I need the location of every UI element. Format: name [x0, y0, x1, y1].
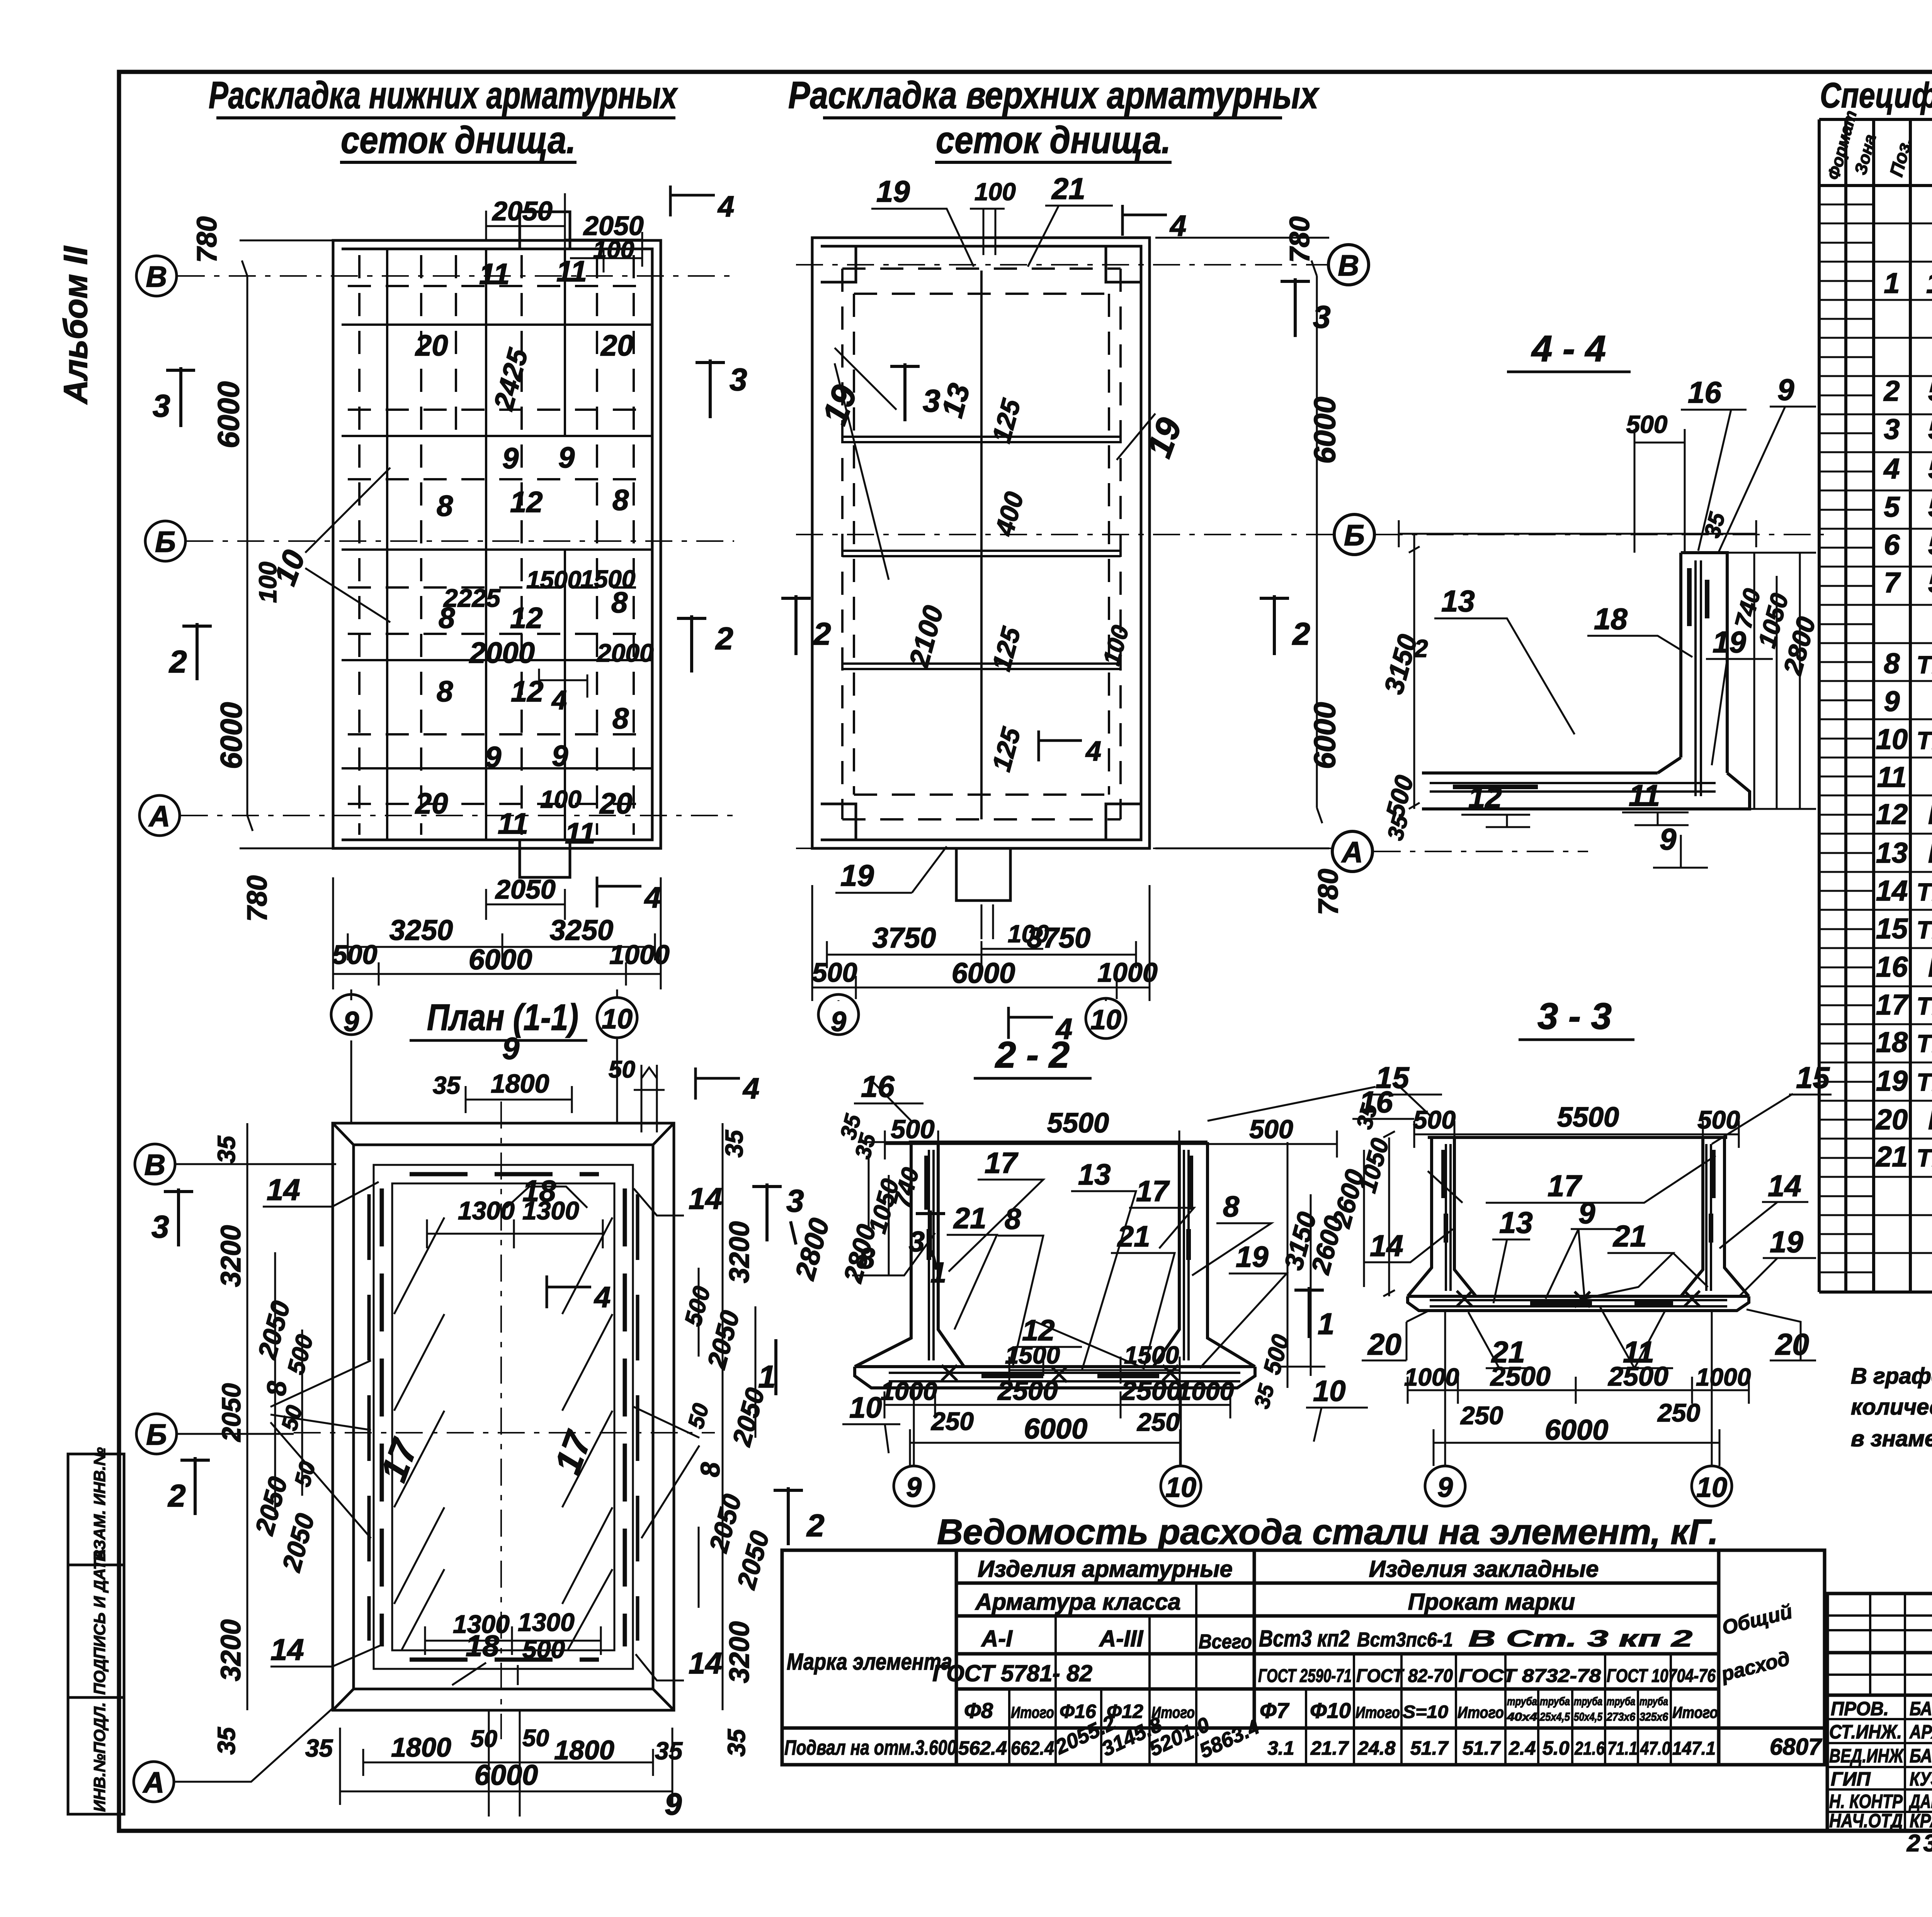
svg-text:780: 780 [192, 216, 223, 263]
svg-text:11: 11 [556, 255, 587, 288]
svg-text:4: 4 [742, 1072, 759, 1105]
svg-text:1: 1 [1318, 1307, 1334, 1341]
svg-text:19: 19 [876, 174, 910, 208]
svg-text:6: 6 [1884, 529, 1900, 561]
svg-text:250: 250 [1460, 1401, 1503, 1430]
svg-text:9: 9 [1660, 822, 1677, 856]
svg-text:КРАСАВИН: КРАСАВИН [1910, 1810, 1932, 1832]
svg-text:ГОСТ 5781- 82: ГОСТ 5781- 82 [932, 1660, 1092, 1686]
svg-text:1300: 1300 [453, 1610, 510, 1638]
svg-text:3: 3 [153, 388, 170, 424]
svg-text:3200: 3200 [724, 1621, 755, 1683]
svg-text:35: 35 [655, 1737, 683, 1765]
svg-text:3: 3 [730, 362, 747, 397]
svg-text:2500: 2500 [1121, 1376, 1182, 1406]
svg-text:1800: 1800 [491, 1069, 549, 1098]
svg-text:50: 50 [522, 1725, 549, 1752]
svg-text:9: 9 [558, 441, 575, 474]
svg-text:19: 19 [1770, 1225, 1803, 1259]
svg-text:9: 9 [344, 1006, 359, 1037]
svg-text:51.7: 51.7 [1463, 1737, 1501, 1759]
svg-text:3: 3 [1884, 413, 1900, 445]
svg-text:9: 9 [906, 1472, 922, 1503]
svg-text:2: 2 [168, 644, 187, 679]
svg-text:4 - 4: 4 - 4 [1531, 328, 1606, 369]
svg-text:15: 15 [1376, 1061, 1410, 1095]
svg-text:ТП902-1-134.88 КЖИ. 49.00: ТП902-1-134.88 КЖИ. 49.00 [1917, 1068, 1932, 1096]
svg-text:23142-01: 23142-01 [1906, 1830, 1932, 1857]
svg-text:ГОСТ 8732-78: ГОСТ 8732-78 [1459, 1666, 1601, 1686]
svg-text:20: 20 [415, 329, 448, 362]
svg-text:труба: труба [1540, 1695, 1570, 1708]
svg-text:ГИП: ГИП [1831, 1768, 1871, 1790]
svg-text:S=10: S=10 [1403, 1702, 1448, 1722]
svg-text:Вст3пс6-1: Вст3пс6-1 [1357, 1629, 1453, 1651]
svg-text:35: 35 [213, 1135, 240, 1163]
svg-text:Раскладка нижних арматурных: Раскладка нижних арматурных [209, 74, 678, 116]
svg-text:4: 4 [594, 1281, 611, 1314]
svg-text:8: 8 [612, 702, 629, 735]
svg-text:4: 4 [644, 881, 661, 914]
svg-text:500: 500 [812, 957, 857, 987]
svg-text:9: 9 [552, 740, 568, 773]
svg-text:13: 13 [1078, 1158, 1111, 1191]
svg-text:9: 9 [665, 1787, 682, 1821]
svg-text:3: 3 [909, 1226, 925, 1258]
svg-text:47.0: 47.0 [1640, 1738, 1670, 1759]
svg-text:20: 20 [415, 787, 448, 820]
svg-text:250: 250 [1657, 1398, 1700, 1427]
svg-text:5.900-2 ТМ91-07: 5.900-2 ТМ91-07 [1928, 491, 1932, 523]
svg-text:500: 500 [1626, 410, 1668, 438]
svg-text:АРХИПОВА: АРХИПОВА [1909, 1721, 1932, 1743]
svg-text:11: 11 [498, 807, 528, 840]
svg-text:147.1: 147.1 [1672, 1738, 1716, 1759]
svg-text:9: 9 [485, 741, 501, 774]
svg-text:780: 780 [1313, 869, 1344, 915]
svg-text:6000: 6000 [214, 702, 248, 769]
svg-text:8: 8 [262, 1381, 292, 1396]
svg-text:Н. КОНТР: Н. КОНТР [1829, 1791, 1903, 1812]
svg-text:562.4: 562.4 [958, 1737, 1007, 1759]
svg-text:273х6: 273х6 [1606, 1711, 1635, 1723]
svg-text:5.900-2 ТМ91-05: 5.900-2 ТМ91-05 [1928, 375, 1932, 407]
svg-text:13: 13 [1441, 584, 1475, 618]
svg-text:Итого: Итого [1355, 1703, 1400, 1721]
svg-text:100: 100 [540, 785, 582, 813]
svg-text:в знаменателе - для системы: в знаменателе - для системы И 4.1 . [1851, 1426, 1932, 1451]
svg-text:1000: 1000 [1404, 1363, 1459, 1391]
svg-text:А-III: А-III [1099, 1626, 1144, 1651]
svg-text:5.900-2 ТМ91-01: 5.900-2 ТМ91-01 [1928, 567, 1932, 599]
svg-text:2500: 2500 [1607, 1361, 1668, 1391]
svg-text:35: 35 [720, 1129, 748, 1158]
svg-text:10: 10 [1090, 1004, 1121, 1035]
svg-text:14: 14 [689, 1182, 722, 1216]
svg-text:21: 21 [1612, 1219, 1647, 1253]
svg-text:71.1: 71.1 [1607, 1738, 1638, 1759]
svg-text:3750: 3750 [872, 922, 936, 954]
svg-text:21: 21 [953, 1202, 986, 1235]
svg-text:780: 780 [242, 875, 273, 922]
svg-text:1: 1 [1884, 267, 1900, 299]
svg-text:250: 250 [1136, 1408, 1180, 1436]
svg-text:20: 20 [1367, 1327, 1401, 1361]
svg-text:10: 10 [1696, 1472, 1727, 1503]
svg-text:14: 14 [689, 1646, 722, 1680]
svg-text:А: А [148, 800, 170, 833]
svg-text:35: 35 [433, 1071, 461, 1099]
svg-text:Б: Б [155, 526, 176, 558]
svg-text:780: 780 [1284, 216, 1315, 263]
svg-text:6000: 6000 [952, 957, 1015, 989]
svg-text:20: 20 [1775, 1327, 1809, 1361]
svg-text:4: 4 [551, 685, 567, 715]
svg-text:9: 9 [502, 442, 519, 475]
svg-text:1800: 1800 [391, 1732, 451, 1762]
svg-text:1500: 1500 [580, 565, 635, 593]
svg-text:14: 14 [1876, 875, 1908, 907]
svg-text:13: 13 [1876, 837, 1908, 869]
svg-text:ИНВ.№ПОДЛ.: ИНВ.№ПОДЛ. [90, 1702, 109, 1812]
svg-text:6000: 6000 [469, 943, 532, 976]
svg-text:ГОСТ 23279 - 85: ГОСТ 23279 - 85 [1928, 798, 1932, 830]
svg-text:15: 15 [1876, 913, 1908, 945]
svg-text:24.8: 24.8 [1357, 1737, 1396, 1759]
svg-text:ГОСТ 23279-85: ГОСТ 23279-85 [1928, 837, 1932, 869]
svg-text:3200: 3200 [216, 1225, 247, 1287]
svg-text:1500: 1500 [526, 566, 581, 594]
svg-text:17: 17 [1548, 1169, 1582, 1203]
svg-text:ГОСТ 2590-71: ГОСТ 2590-71 [1258, 1666, 1352, 1686]
svg-text:БАБИКОВА: БАБИКОВА [1910, 1745, 1932, 1767]
svg-text:Всего: Всего [1199, 1631, 1252, 1653]
svg-text:ВЗАМ. ИНВ.№: ВЗАМ. ИНВ.№ [90, 1447, 109, 1561]
svg-text:35: 35 [305, 1734, 333, 1762]
svg-text:19: 19 [1236, 1241, 1269, 1273]
svg-text:ТП902-1-134.88 КЖИ. 50.00: ТП902-1-134.88 КЖИ. 50.00 [1917, 1144, 1932, 1172]
svg-text:1000: 1000 [881, 1377, 937, 1405]
svg-text:В: В [145, 1149, 166, 1182]
svg-text:А-I: А-I [981, 1626, 1013, 1651]
svg-text:11: 11 [1629, 778, 1660, 812]
svg-text:6000: 6000 [474, 1759, 538, 1791]
svg-text:10: 10 [849, 1391, 882, 1424]
svg-text:2225: 2225 [443, 584, 501, 612]
svg-text:17: 17 [1136, 1175, 1170, 1208]
svg-text:БАБИКОВА: БАБИКОВА [1910, 1698, 1932, 1720]
svg-text:35: 35 [213, 1726, 240, 1755]
svg-text:ТП902-1-134.88 КЖИ. 46. 00: ТП902-1-134.88 КЖИ. 46. 00 [1917, 727, 1932, 754]
svg-text:8: 8 [1884, 647, 1900, 679]
svg-text:Ф10: Ф10 [1310, 1698, 1351, 1723]
svg-text:3: 3 [786, 1183, 804, 1219]
svg-text:12: 12 [510, 602, 543, 635]
svg-text:8: 8 [695, 1462, 725, 1477]
svg-text:Изделия закладные: Изделия закладные [1369, 1556, 1599, 1582]
svg-text:труба: труба [1607, 1695, 1635, 1708]
svg-text:1300: 1300 [518, 1608, 575, 1636]
svg-text:40х4: 40х4 [1507, 1711, 1537, 1723]
svg-text:12: 12 [510, 486, 543, 519]
svg-text:9: 9 [831, 1006, 846, 1037]
svg-text:ГОСТ 23279-85: ГОСТ 23279-85 [1928, 1103, 1932, 1136]
svg-text:2500: 2500 [1490, 1361, 1551, 1391]
svg-text:51.7: 51.7 [1410, 1737, 1449, 1759]
svg-text:500: 500 [332, 940, 378, 970]
svg-text:Ф7: Ф7 [1260, 1698, 1290, 1723]
svg-text:19: 19 [1713, 625, 1746, 659]
svg-text:16: 16 [1688, 375, 1721, 409]
svg-text:А: А [1341, 836, 1363, 869]
svg-text:325х6: 325х6 [1639, 1711, 1668, 1723]
svg-text:11: 11 [565, 817, 595, 850]
svg-text:19: 19 [1876, 1065, 1908, 1097]
svg-text:1000: 1000 [1177, 1377, 1234, 1405]
svg-text:8: 8 [1223, 1190, 1240, 1223]
svg-text:12: 12 [1876, 798, 1908, 830]
svg-text:8: 8 [612, 484, 629, 517]
svg-text:8: 8 [437, 675, 453, 708]
svg-text:18: 18 [1594, 602, 1628, 636]
svg-text:ТП.902-1-134.88 КЖИ.47.00: ТП.902-1-134.88 КЖИ.47.00 [1917, 878, 1932, 906]
svg-text:21.7: 21.7 [1310, 1737, 1349, 1759]
svg-text:Итого: Итого [1011, 1703, 1054, 1721]
svg-text:1000: 1000 [1696, 1363, 1751, 1391]
svg-text:15: 15 [1796, 1061, 1830, 1095]
svg-text:сеток днища.: сеток днища. [936, 119, 1171, 161]
svg-text:2: 2 [1292, 616, 1310, 652]
svg-text:5.0: 5.0 [1543, 1737, 1570, 1759]
svg-text:6000: 6000 [1308, 702, 1342, 769]
svg-text:3 - 3: 3 - 3 [1537, 996, 1612, 1037]
svg-text:КУЗНЕЦОВ: КУЗНЕЦОВ [1910, 1768, 1932, 1790]
svg-text:Подвал на отм.3.600: Подвал на отм.3.600 [784, 1736, 956, 1759]
svg-text:ГОСТ 23279- 85: ГОСТ 23279- 85 [1928, 951, 1932, 983]
svg-text:2: 2 [813, 616, 831, 652]
svg-text:5.900-2 ТМ91-04: 5.900-2 ТМ91-04 [1928, 453, 1932, 485]
svg-text:6000: 6000 [211, 381, 245, 448]
svg-text:2.4: 2.4 [1509, 1737, 1536, 1759]
svg-text:Раскладка верхних арматурных: Раскладка верхних арматурных [788, 74, 1320, 116]
svg-text:9: 9 [1777, 373, 1794, 407]
svg-text:1800: 1800 [554, 1735, 614, 1765]
svg-text:50: 50 [609, 1056, 635, 1083]
svg-text:Вст3 кп2: Вст3 кп2 [1259, 1626, 1350, 1651]
svg-text:1: 1 [930, 1256, 946, 1289]
svg-text:Арматура класса: Арматура класса [975, 1589, 1181, 1615]
svg-text:19: 19 [840, 858, 874, 892]
svg-text:17: 17 [985, 1147, 1019, 1180]
svg-text:5500: 5500 [1047, 1108, 1109, 1139]
svg-text:11: 11 [1877, 761, 1907, 793]
svg-text:1000: 1000 [609, 940, 670, 970]
svg-text:16: 16 [1876, 951, 1908, 983]
svg-text:16: 16 [861, 1069, 895, 1103]
svg-text:труба: труба [1507, 1695, 1537, 1708]
svg-text:13: 13 [1499, 1205, 1533, 1239]
svg-text:СТ.ИНЖ.: СТ.ИНЖ. [1829, 1721, 1902, 1743]
svg-text:21: 21 [1051, 172, 1085, 206]
svg-text:12: 12 [1468, 780, 1502, 814]
svg-text:1.400-15.В1. 130-19: 1.400-15.В1. 130-19 [1926, 267, 1932, 299]
svg-text:1300: 1300 [522, 1196, 579, 1225]
svg-text:В: В [1338, 249, 1359, 282]
svg-text:662.4: 662.4 [1011, 1737, 1054, 1759]
svg-text:Прокат марки: Прокат марки [1408, 1589, 1575, 1615]
svg-text:количество сальников для си: количество сальников для системы И3.1 ; [1851, 1394, 1932, 1420]
svg-text:сеток днища.: сеток днища. [341, 119, 576, 161]
svg-text:3: 3 [1313, 300, 1331, 335]
svg-text:6000: 6000 [1545, 1414, 1609, 1446]
svg-text:2000: 2000 [469, 637, 535, 669]
svg-text:14: 14 [1768, 1169, 1801, 1203]
svg-text:ПОДПИСЬ И ДАТА: ПОДПИСЬ И ДАТА [90, 1549, 109, 1695]
svg-text:100: 100 [593, 236, 634, 264]
svg-text:7: 7 [1884, 567, 1901, 599]
svg-text:14: 14 [1370, 1229, 1403, 1263]
svg-text:ГОСТ 10704-76: ГОСТ 10704-76 [1607, 1666, 1716, 1686]
svg-text:20: 20 [600, 329, 634, 362]
svg-text:3250: 3250 [550, 914, 614, 946]
svg-text:ДАНИЛЕВСК: ДАНИЛЕВСК [1908, 1791, 1932, 1812]
svg-text:Б: Б [1344, 519, 1365, 552]
svg-text:В графе „количество” в числ: В графе „количество” в числителе дано [1851, 1364, 1932, 1389]
svg-text:5500: 5500 [1557, 1102, 1619, 1133]
svg-text:6000: 6000 [1024, 1413, 1088, 1445]
svg-text:1300: 1300 [458, 1196, 515, 1225]
svg-text:Ф16: Ф16 [1060, 1701, 1097, 1722]
svg-text:2000: 2000 [596, 638, 654, 667]
svg-text:9: 9 [502, 1031, 520, 1066]
svg-text:2 - 2: 2 - 2 [995, 1034, 1070, 1076]
svg-text:3250: 3250 [389, 914, 453, 946]
svg-text:Ф8: Ф8 [964, 1698, 993, 1723]
svg-text:Итого: Итого [1672, 1703, 1718, 1721]
svg-text:21.6: 21.6 [1574, 1738, 1605, 1759]
svg-text:труба: труба [1574, 1695, 1602, 1708]
svg-text:50х4,5: 50х4,5 [1574, 1711, 1603, 1723]
svg-text:4: 4 [1883, 453, 1900, 485]
svg-text:Альбом II: Альбом II [57, 245, 94, 405]
svg-text:10: 10 [1165, 1472, 1196, 1503]
svg-text:ТП.902-1-134.88 КЖИ. 45.00: ТП.902-1-134.88 КЖИ. 45.00 [1917, 651, 1932, 679]
svg-text:5.900-2 ТМ 91-02: 5.900-2 ТМ 91-02 [1928, 529, 1932, 561]
svg-text:Марка элемента: Марка элемента [787, 1649, 952, 1675]
svg-text:6000: 6000 [1308, 397, 1342, 464]
svg-text:4: 4 [717, 190, 734, 223]
svg-text:1000: 1000 [1097, 957, 1158, 987]
svg-text:Спецификация элементов монолит: Спецификация элементов монолитной констр… [1820, 76, 1932, 115]
svg-text:ТП902-1-134. 88 КЖУ. 52.00: ТП902-1-134. 88 КЖУ. 52.00 [1917, 916, 1932, 944]
svg-text:1500: 1500 [1124, 1341, 1179, 1369]
svg-text:9: 9 [1884, 685, 1900, 717]
svg-text:500: 500 [1249, 1115, 1293, 1144]
svg-text:Итого: Итого [1458, 1703, 1504, 1721]
svg-text:11: 11 [479, 258, 510, 291]
svg-text:2500: 2500 [997, 1376, 1058, 1406]
svg-text:3.1: 3.1 [1267, 1737, 1294, 1759]
svg-text:Ведомость расхода стали на: Ведомость расхода стали на элемент, кГ. [937, 1512, 1718, 1552]
svg-text:14: 14 [270, 1633, 304, 1667]
svg-text:В Ст. 3 кп 2: В Ст. 3 кп 2 [1468, 1626, 1692, 1651]
svg-text:25х4,5: 25х4,5 [1539, 1711, 1570, 1723]
svg-text:2: 2 [167, 1478, 186, 1514]
svg-text:250: 250 [930, 1407, 974, 1435]
svg-text:50: 50 [471, 1726, 497, 1752]
svg-text:500: 500 [522, 1635, 565, 1663]
svg-text:2: 2 [806, 1508, 825, 1543]
svg-text:9: 9 [1437, 1472, 1453, 1503]
svg-text:3: 3 [923, 383, 940, 419]
svg-text:9: 9 [1578, 1196, 1595, 1230]
svg-text:2: 2 [715, 621, 733, 656]
svg-text:труба: труба [1639, 1695, 1668, 1708]
svg-text:2050: 2050 [495, 874, 556, 904]
svg-text:500: 500 [1413, 1105, 1456, 1134]
svg-text:5: 5 [1884, 491, 1900, 523]
svg-text:10: 10 [1313, 1375, 1346, 1408]
svg-text:35: 35 [723, 1728, 750, 1757]
svg-text:1: 1 [758, 1359, 776, 1394]
svg-text:2050: 2050 [492, 196, 553, 226]
svg-text:10: 10 [602, 1004, 633, 1035]
svg-text:20: 20 [1875, 1103, 1908, 1136]
svg-text:100: 100 [254, 562, 282, 603]
svg-text:2: 2 [1414, 635, 1428, 662]
svg-text:3: 3 [151, 1209, 169, 1245]
svg-text:В: В [146, 260, 167, 293]
svg-text:8: 8 [437, 490, 453, 523]
svg-text:20: 20 [599, 787, 633, 820]
svg-text:ТП902-1-134.88 КЖИ.51.00: ТП902-1-134.88 КЖИ.51.00 [1917, 1030, 1932, 1057]
svg-text:14: 14 [267, 1173, 300, 1207]
svg-text:ПРОВ.: ПРОВ. [1831, 1698, 1889, 1720]
svg-text:17: 17 [1876, 989, 1909, 1021]
svg-text:5.900-2 ТМ 91-06: 5.900-2 ТМ 91-06 [1928, 413, 1932, 445]
svg-text:3200: 3200 [724, 1221, 755, 1283]
svg-text:ГОСТ 82-70: ГОСТ 82-70 [1356, 1666, 1453, 1686]
svg-text:10: 10 [1876, 723, 1908, 755]
svg-text:18: 18 [1876, 1026, 1908, 1058]
svg-text:ВЕД.ИНЖ: ВЕД.ИНЖ [1829, 1745, 1904, 1767]
svg-text:4: 4 [1085, 736, 1101, 767]
svg-text:21: 21 [1875, 1141, 1908, 1173]
svg-text:А: А [143, 1766, 165, 1799]
svg-text:2: 2 [1883, 375, 1900, 407]
svg-text:6807: 6807 [1770, 1734, 1822, 1760]
svg-text:ТП902-1-134.88 КЖИ. 48.00: ТП902-1-134.88 КЖИ. 48.00 [1917, 992, 1932, 1020]
svg-text:3750: 3750 [1027, 922, 1091, 954]
svg-text:НАЧ.ОТД: НАЧ.ОТД [1829, 1810, 1903, 1832]
svg-text:100: 100 [975, 178, 1016, 206]
svg-text:3200: 3200 [216, 1619, 247, 1681]
svg-text:500: 500 [1697, 1105, 1740, 1134]
svg-text:500: 500 [891, 1115, 935, 1144]
svg-text:1500: 1500 [1005, 1341, 1060, 1369]
svg-text:8: 8 [1005, 1203, 1021, 1236]
svg-text:Изделия арматурные: Изделия арматурные [978, 1556, 1233, 1582]
svg-text:Б: Б [146, 1418, 167, 1451]
